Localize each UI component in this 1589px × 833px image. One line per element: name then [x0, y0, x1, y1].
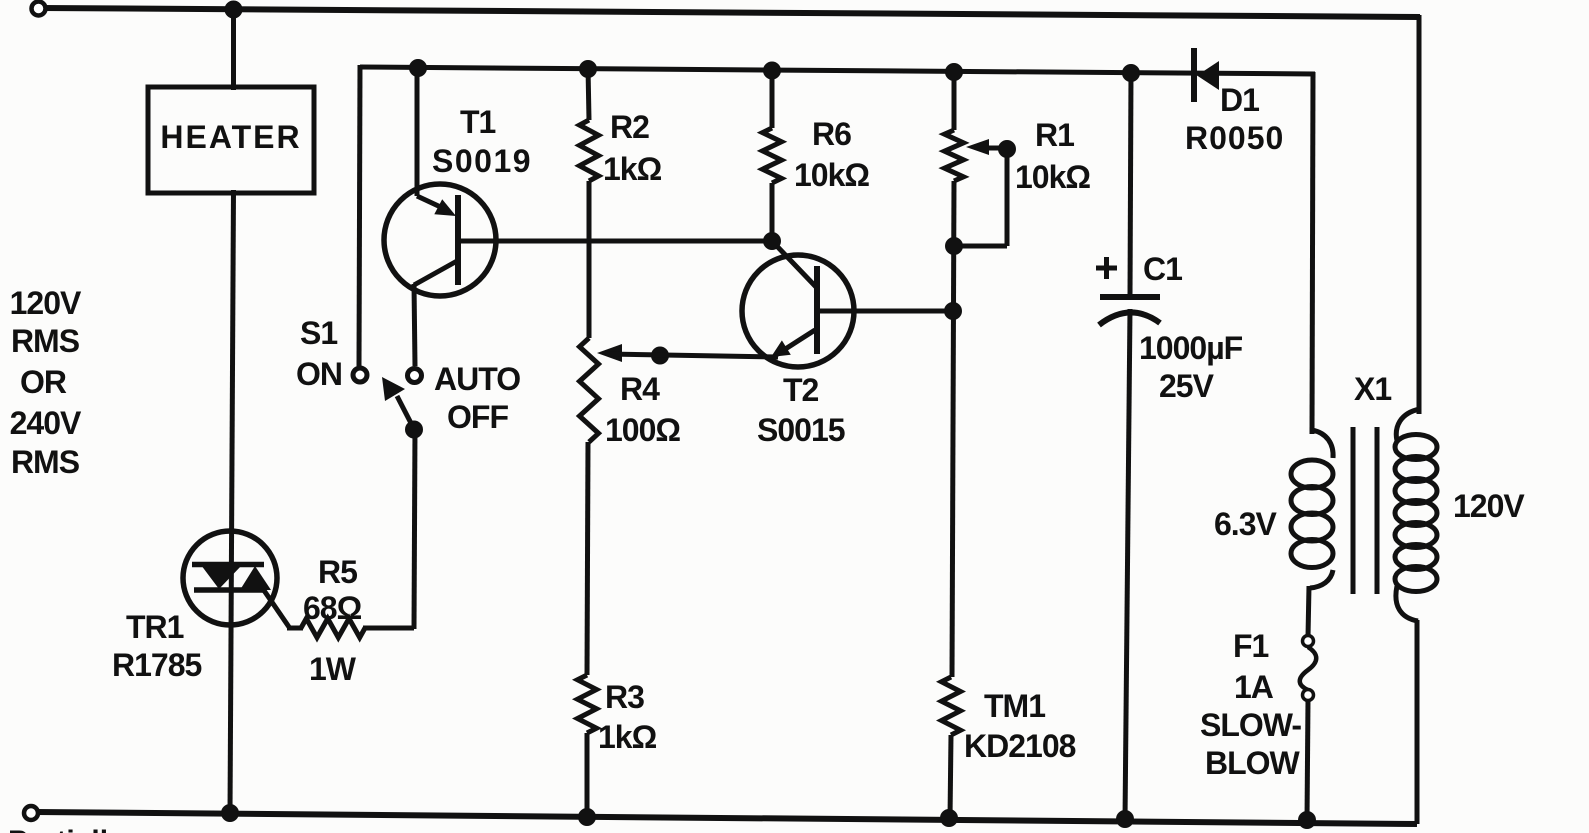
- svg-text:S1: S1: [300, 315, 337, 351]
- svg-text:240V: 240V: [10, 405, 82, 441]
- svg-text:Partially: Partially: [8, 825, 125, 833]
- svg-text:T2: T2: [783, 372, 819, 408]
- svg-text:10kΩ: 10kΩ: [794, 157, 869, 193]
- svg-text:OFF: OFF: [447, 399, 508, 435]
- svg-text:RMS: RMS: [11, 323, 80, 359]
- svg-text:100Ω: 100Ω: [605, 412, 680, 448]
- svg-text:R1: R1: [1035, 117, 1074, 153]
- svg-text:R5: R5: [318, 554, 357, 590]
- svg-text:120V: 120V: [1453, 488, 1525, 524]
- svg-text:6.3V: 6.3V: [1214, 506, 1277, 542]
- svg-text:68Ω: 68Ω: [303, 590, 362, 626]
- svg-text:R2: R2: [610, 109, 649, 145]
- svg-text:1kΩ: 1kΩ: [598, 719, 657, 755]
- svg-text:F1: F1: [1233, 628, 1269, 664]
- svg-text:1W: 1W: [309, 651, 357, 687]
- svg-text:SLOW-: SLOW-: [1200, 707, 1301, 743]
- svg-text:ON: ON: [296, 356, 342, 392]
- svg-text:HEATER: HEATER: [160, 119, 301, 155]
- svg-text:R0050: R0050: [1185, 120, 1284, 156]
- svg-text:R4: R4: [620, 371, 660, 407]
- svg-text:AUTO: AUTO: [434, 361, 520, 397]
- svg-text:BLOW: BLOW: [1205, 745, 1301, 781]
- svg-text:1kΩ: 1kΩ: [603, 151, 662, 187]
- svg-text:25V: 25V: [1159, 368, 1215, 404]
- svg-text:D1: D1: [1220, 82, 1259, 118]
- svg-text:R1785: R1785: [112, 647, 202, 683]
- svg-text:RMS: RMS: [11, 444, 80, 480]
- svg-text:C1: C1: [1143, 251, 1182, 287]
- svg-text:10kΩ: 10kΩ: [1015, 159, 1090, 195]
- svg-text:S0015: S0015: [757, 412, 845, 448]
- svg-text:R3: R3: [605, 679, 644, 715]
- svg-text:TR1: TR1: [126, 609, 184, 645]
- svg-text:TM1: TM1: [984, 688, 1045, 724]
- svg-text:1A: 1A: [1234, 669, 1274, 705]
- svg-text:OR: OR: [20, 364, 67, 400]
- svg-text:X1: X1: [1354, 371, 1391, 407]
- svg-text:KD2108: KD2108: [964, 728, 1076, 764]
- svg-text:1000µF: 1000µF: [1139, 330, 1243, 366]
- svg-text:T1: T1: [460, 104, 496, 140]
- svg-text:S0019: S0019: [432, 143, 532, 179]
- svg-text:120V: 120V: [10, 285, 82, 321]
- svg-text:R6: R6: [812, 116, 851, 152]
